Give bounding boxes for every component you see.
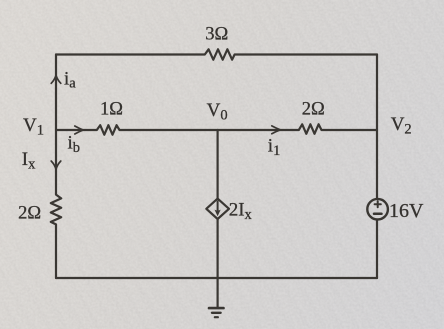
svg-text:16V: 16V: [389, 200, 424, 222]
svg-text:3Ω: 3Ω: [205, 25, 228, 45]
svg-text:2Ω: 2Ω: [18, 203, 41, 223]
svg-text:2Ω: 2Ω: [302, 99, 325, 119]
svg-text:1Ω: 1Ω: [100, 99, 123, 119]
